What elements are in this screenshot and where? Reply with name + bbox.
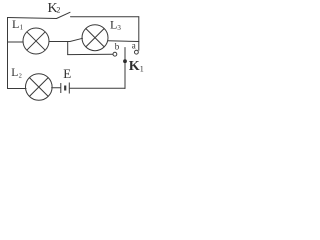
wire right vertical <box>138 17 140 50</box>
lamp L1 <box>23 28 49 54</box>
switch K1 pivot junction dot <box>123 59 127 63</box>
lamp L3 <box>82 25 108 51</box>
wire left vertical <box>7 18 9 89</box>
wire junction drop <box>67 42 69 55</box>
wire L1 to junction <box>49 38 83 41</box>
svg-text:a: a <box>132 41 136 51</box>
switch K2 blade <box>57 12 71 18</box>
wire top left segment <box>8 18 57 19</box>
node a contact <box>135 50 139 54</box>
svg-text:E: E <box>63 66 71 81</box>
svg-text:L: L <box>11 67 18 79</box>
lamp L2 <box>26 74 53 101</box>
wire bottom left segment <box>8 88 27 90</box>
svg-text:2: 2 <box>19 72 22 79</box>
svg-text:1: 1 <box>140 64 144 73</box>
node b contact <box>113 52 117 56</box>
wire L2 to battery <box>52 87 61 89</box>
svg-text:K: K <box>129 59 140 74</box>
wire junction to contact b <box>68 53 113 55</box>
wire L1 branch from left rail <box>8 41 24 43</box>
svg-text:1: 1 <box>20 24 24 32</box>
svg-text:L: L <box>12 17 19 31</box>
svg-text:b: b <box>115 42 120 52</box>
switch K1 blade vertical <box>124 48 126 89</box>
wire top right segment <box>71 16 139 18</box>
wire battery to bottom right corner <box>70 87 125 89</box>
svg-text:3: 3 <box>117 24 121 32</box>
wire L3 to right rail <box>108 40 139 43</box>
svg-text:L: L <box>110 18 117 32</box>
battery E <box>61 83 70 94</box>
svg-text:2: 2 <box>56 6 60 15</box>
